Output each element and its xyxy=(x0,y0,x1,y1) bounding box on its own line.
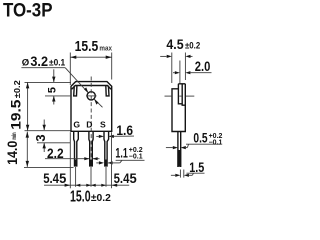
vertical dashed centerline xyxy=(90,77,92,167)
svg-text:0.5: 0.5 xyxy=(193,131,207,147)
dim 19.5 dimension line with arrows xyxy=(27,82,29,130)
arrows of 5.45 dimensions xyxy=(76,184,81,187)
svg-text:±0.2: ±0.2 xyxy=(12,80,22,98)
leader diagonal to hole with arrowheads xyxy=(65,68,88,93)
svg-text:−0.1: −0.1 xyxy=(209,139,223,146)
dim 3 arrows and stems xyxy=(43,120,45,131)
svg-text:5.4: 5.4 xyxy=(114,171,130,187)
dim 2.0 arrows and shelf xyxy=(173,72,175,74)
dim text 5.45 left xyxy=(43,171,66,187)
svg-text:4.5: 4.5 xyxy=(166,37,183,53)
side view tab outline xyxy=(178,83,185,85)
side view tab left face + seam step xyxy=(178,84,182,104)
svg-text:19.5: 19.5 xyxy=(9,99,25,129)
svg-text:max: max xyxy=(99,44,112,53)
svg-text:5: 5 xyxy=(130,171,137,187)
svg-text:3: 3 xyxy=(33,134,48,141)
dim 4.5 arrows xyxy=(160,55,166,57)
svg-text:±0.1: ±0.1 xyxy=(49,58,65,68)
svg-text:1.1: 1.1 xyxy=(115,146,127,162)
svg-text:−0.1: −0.1 xyxy=(129,154,143,161)
dim 2.2 shelf and arrows at lead D xyxy=(45,158,89,160)
svg-text:14.0: 14.0 xyxy=(5,141,21,165)
front view right tab groove xyxy=(106,86,109,96)
svg-text:15.5: 15.5 xyxy=(75,38,99,55)
svg-text:2.2: 2.2 xyxy=(47,146,64,162)
dim label Ø3.2±0.1 xyxy=(22,54,65,70)
hole horizontal center tick xyxy=(86,95,97,97)
svg-text:2.0: 2.0 xyxy=(195,59,211,75)
lead D outline xyxy=(89,132,93,166)
front view inner tab hat contour xyxy=(72,86,112,90)
svg-text:5.4: 5.4 xyxy=(43,171,59,187)
svg-text:5: 5 xyxy=(59,171,66,187)
dim 1.5 arrows xyxy=(171,174,175,176)
svg-text:5: 5 xyxy=(46,87,58,93)
dim 5 extension line at hole center xyxy=(45,95,71,97)
dim text 5 (rotated) xyxy=(46,87,58,93)
dim text 3 (rotated) xyxy=(33,134,48,141)
side view lead xyxy=(178,132,181,168)
dim text 1.6 xyxy=(116,123,133,139)
dim 15.5max extension lines xyxy=(69,53,71,86)
svg-text:min: min xyxy=(11,132,18,139)
dim 1.5 shelf xyxy=(187,172,205,174)
dim text 5.45 right xyxy=(114,171,137,187)
svg-text:S: S xyxy=(100,120,106,130)
lead D tip fill xyxy=(90,160,93,167)
dim text 2.2 xyxy=(47,146,64,162)
dim 0.5 shelf xyxy=(186,143,221,145)
dim 4.5±0.2 extension lines xyxy=(171,53,173,84)
dim text 15.5 max xyxy=(75,38,113,55)
front view left tab groove xyxy=(74,86,77,96)
shared extension line at body bottom xyxy=(25,130,71,132)
svg-text:G: G xyxy=(73,119,80,129)
svg-text:1.6: 1.6 xyxy=(116,123,133,139)
dim text 1.5 xyxy=(189,160,204,176)
dim text 19.5±0.2 (rotated) xyxy=(9,80,25,130)
dim 2.0 extension line (tab left face) xyxy=(179,61,181,84)
front view package body outline xyxy=(71,82,112,132)
dim text 14.0min (rotated) xyxy=(5,132,21,165)
mounting hole circle xyxy=(87,92,95,100)
arrows of 15.0 dimension xyxy=(65,184,71,187)
lead center extension lines xyxy=(75,167,77,187)
side view body outline xyxy=(172,84,185,132)
dim text 1.1 with tolerance xyxy=(115,146,127,162)
leader shelf for Ø3.2 xyxy=(21,67,65,69)
svg-text:D: D xyxy=(86,119,92,129)
side view hole centerline xyxy=(165,95,172,97)
svg-text:15.0: 15.0 xyxy=(70,189,91,206)
svg-text:1.5: 1.5 xyxy=(189,160,204,176)
lead G tip fill xyxy=(74,160,77,167)
dim 15.5max dimension line xyxy=(70,56,111,58)
dim 1.1 +0.2 -0.1 at lead S tip xyxy=(96,162,99,164)
lead G outline xyxy=(74,132,79,166)
svg-text:Ø: Ø xyxy=(22,58,30,69)
lead S tip fill xyxy=(105,160,108,167)
body bottom corner extension lines xyxy=(69,132,71,188)
svg-text:±0.2: ±0.2 xyxy=(91,193,112,204)
dim 3 lower extension line xyxy=(37,142,70,144)
lead S outline xyxy=(104,132,109,166)
dim 5 arrows and stems xyxy=(53,69,55,82)
dim text 4.5±0.2 xyxy=(166,37,200,53)
side view lead tip fill xyxy=(178,150,182,167)
lead tip extension line xyxy=(24,166,74,168)
dim text 15.0±0.2 xyxy=(70,189,111,206)
dim text 0.5 with tolerance xyxy=(193,131,207,147)
dim 19.5 extension line top xyxy=(25,81,72,83)
dim 1.6 arrows at lead S wide part xyxy=(96,135,99,137)
bottom dimension line (5.45 / 15.0 shared) xyxy=(44,184,129,186)
dim 14.0min dimension line with arrows xyxy=(26,132,28,167)
svg-text:TO-3P: TO-3P xyxy=(3,0,53,22)
dim text 2.0 xyxy=(195,59,211,75)
dim 1.5 extension lines xyxy=(179,170,181,178)
svg-text:±0.2: ±0.2 xyxy=(185,41,200,51)
dim 0.5 arrows at lead xyxy=(166,147,173,149)
